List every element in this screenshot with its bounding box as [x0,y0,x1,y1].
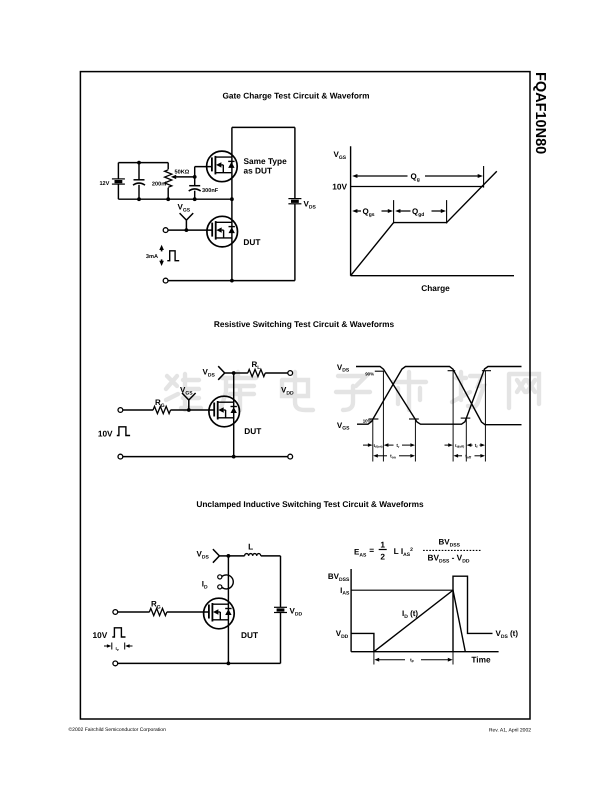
svg-text:DUT: DUT [241,630,258,640]
svg-text:Gate Charge Test Circuit & Wav: Gate Charge Test Circuit & Waveform [222,91,369,101]
waveform VDS trace [356,367,522,425]
svg-text:12V: 12V [99,181,109,187]
wire drain rail [227,556,229,664]
potentiometer wiper arrow [171,175,176,179]
wire source rail [227,662,231,666]
dimension Qgd [395,209,400,213]
wire L to right rail [261,555,281,557]
dimension Qg [352,174,357,178]
probe VGS [185,228,189,232]
wire source rail [232,455,236,459]
90% tick right2 [482,370,491,372]
svg-text:Unclamped Inductive Switching: Unclamped Inductive Switching Test Circu… [196,499,424,509]
VDS trace [351,633,374,651]
wire bottom rail [118,662,281,664]
probe VDS [219,555,228,557]
transistor DUT [204,598,235,629]
svg-text:=: = [369,545,374,555]
wire wiper to gate of Q1 [193,175,197,179]
svg-text:Rev. A1, April 2002: Rev. A1, April 2002 [489,728,531,734]
watermark text [166,372,539,410]
wire drain rail [233,373,235,457]
svg-text:FQAF10N80: FQAF10N80 [532,72,548,154]
battery VDD [274,606,287,608]
svg-text:300nF: 300nF [202,188,219,194]
svg-text:Same Type: Same Type [244,156,288,166]
svg-text:tP: tP [116,646,119,652]
terminal gate input [163,228,168,233]
10% tick right [461,417,471,419]
capacitor 200nF [138,163,140,180]
potentiometer 50K [167,163,169,170]
dimension td(off) [445,444,449,446]
dimension verticals tp [373,652,375,665]
resistor RL [248,369,266,376]
wire RG to gate [167,611,209,613]
svg-text:L: L [248,542,253,552]
terminal source return [163,278,168,283]
wire bottom rail [123,456,288,458]
svg-text:10%: 10% [363,419,372,424]
terminal bottom right [288,454,293,459]
dimension toff [454,454,459,458]
wire bottom rail [232,280,295,282]
dimension verticals [372,419,374,462]
90% tick right1 [448,370,456,372]
wire drain to RL [234,372,248,374]
terminal VDD [288,371,293,376]
10V level line [351,186,484,188]
transistor DUT [209,396,240,427]
inductor L [245,554,261,556]
svg-text:10V: 10V [98,428,113,438]
transistor Q1 Same Type as DUT [207,151,238,182]
terminal gate input [113,610,118,615]
resistor RG [149,608,167,615]
svg-text:DUT: DUT [244,426,261,436]
svg-text:90%: 90% [365,372,374,377]
dimension tf [467,443,472,447]
terminal bottom left [113,661,118,666]
svg-text:50KΩ: 50KΩ [175,170,190,176]
tick plateau end [446,200,448,223]
dimension Qgs [352,209,357,213]
dimension td(on) [363,444,369,446]
svg-text:1: 1 [380,540,385,550]
wire top rail of gate-drive loop [118,162,168,164]
svg-text:Charge: Charge [421,283,450,293]
svg-text:Time: Time [471,655,491,665]
svg-text:as DUT: as DUT [244,166,273,176]
wire right rail [294,127,296,198]
10% tick left [369,418,379,420]
battery VDS [288,198,301,200]
tick Qg end [483,166,485,188]
current loop ID [218,575,222,579]
axis VGS vs Charge [350,146,352,276]
border frame [80,72,530,719]
10% tick mid [409,418,419,420]
tick plateau start [393,200,395,223]
wire drain-source rail [231,127,233,280]
svg-text:Resistive Switching Test Circu: Resistive Switching Test Circuit & Wavef… [214,319,395,329]
wire right rail [280,556,282,607]
svg-text:DUT: DUT [243,237,260,247]
svg-text:©2002 Fairchild Semiconductor: ©2002 Fairchild Semiconductor Corporatio… [69,727,167,733]
resistor RG [153,406,171,413]
probe VDS [225,372,234,374]
wire RL to terminal [265,372,288,374]
wire RG to gate [171,409,215,411]
dimension ton [373,454,378,458]
probe VGS [187,408,191,412]
svg-text:td(off): td(off) [455,443,464,449]
waveform VGS trace [357,367,522,425]
dimension tp [374,658,379,662]
terminal gate drive input [118,408,123,413]
dimension tr [384,443,389,447]
wire top rail [232,126,295,128]
ID trace [374,590,465,652]
90% tick left [375,370,384,372]
gate charge curve [351,171,497,275]
terminal bottom left [118,454,123,459]
wire top rail to L [228,555,244,557]
axis UIS waveform [350,569,352,652]
svg-text:2: 2 [380,552,385,562]
wire bottom rail of gate-drive loop [118,198,231,200]
svg-text:td(on): td(on) [374,443,383,449]
svg-text:10V: 10V [93,630,108,640]
capacitor 300nF [194,177,196,186]
battery 12V [117,163,119,179]
svg-text:3mA: 3mA [146,254,158,260]
svg-text:10V: 10V [332,182,347,192]
transistor DUT [207,216,238,247]
pulse width tp marks [104,645,108,647]
IAS level line [351,589,453,591]
